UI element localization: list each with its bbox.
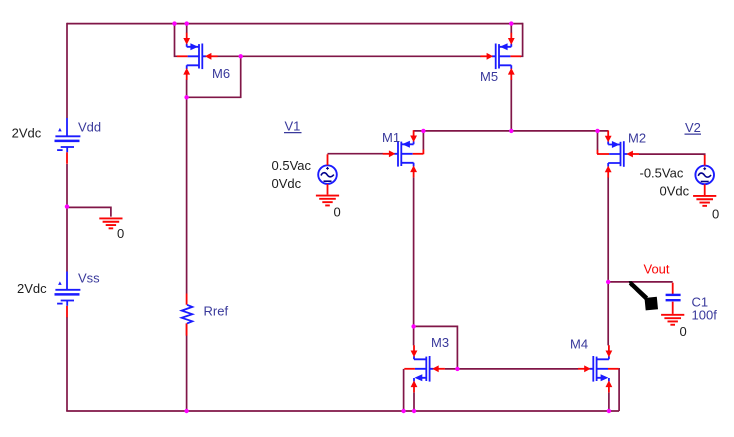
svg-text:Vdd: Vdd [78, 119, 101, 134]
transistor M4 [578, 345, 619, 392]
svg-text:Vss: Vss [78, 271, 100, 286]
transistor M5 [480, 33, 521, 80]
junction top rail / M6 bulk [172, 21, 176, 25]
pin M2 bulk connector [597, 150, 599, 154]
battery Vss [55, 272, 81, 318]
svg-text:Vout: Vout [644, 262, 670, 277]
wire M5 drain from top rail dot [510, 24, 512, 34]
ground 0 below V1 [316, 196, 339, 206]
wire M3 gate to M4 gate [445, 368, 578, 370]
wire Vout branch to C1 [608, 281, 673, 283]
transistor M6 [177, 33, 218, 80]
wire M4 bulk down to rail [618, 369, 621, 411]
svg-text:V1: V1 [285, 119, 301, 134]
wire top VDD rail [67, 23, 523, 25]
pin M1 bulk connector [422, 150, 424, 155]
wire M1 source down to M3 drain [413, 177, 415, 345]
transistor M1 [383, 130, 424, 177]
ground 0 at supply midpoint [99, 218, 122, 228]
ground 0 below V2 [693, 196, 716, 206]
svg-text:100f: 100f [692, 308, 718, 323]
AC source V1 [318, 165, 337, 184]
svg-text:0Vdc: 0Vdc [272, 176, 302, 191]
svg-text:M2: M2 [628, 131, 646, 146]
svg-text:M1: M1 [382, 130, 400, 145]
svg-text:0Vdc: 0Vdc [660, 184, 690, 199]
junction M3 gate tie [455, 367, 459, 371]
junction mid rail / M2 bulk [595, 129, 599, 133]
wire Vss battery to bottom rail [66, 317, 68, 411]
transistor M2 [599, 130, 640, 177]
pin V1 top [327, 154, 329, 165]
svg-text:0: 0 [334, 205, 341, 220]
wire M5 source down to mid rail [510, 80, 512, 131]
svg-text:M6: M6 [212, 66, 230, 81]
battery Vdd [55, 118, 81, 164]
svg-text:2Vdc: 2Vdc [12, 125, 42, 140]
svg-text:2Vdc: 2Vdc [17, 281, 47, 296]
wire V1 to M1 gate [328, 153, 384, 155]
svg-text:-0.5Vac: -0.5Vac [640, 166, 684, 181]
wire Vdd battery to mid junction [66, 164, 68, 272]
junction mid rail / M1 drain [421, 129, 425, 133]
junction supply midpoint [65, 204, 69, 208]
junction bottom rail / M4 source [607, 409, 611, 413]
junction mid rail / M5 source [509, 129, 513, 133]
wire M2 gate to V2 [639, 154, 705, 156]
voltage probe marker at Vout [629, 281, 658, 310]
wire top rail right drop to M5 bulk [520, 23, 523, 57]
wire M2 bulk from mid rail dot [597, 131, 599, 150]
svg-text:0: 0 [117, 226, 124, 241]
svg-text:V2: V2 [685, 120, 701, 135]
pin V2 bottom / ground lead [704, 184, 706, 195]
junction M6 source / Rref [184, 95, 188, 99]
AC source V2 [695, 166, 714, 185]
junction M1 source / M3 drain tie [411, 324, 415, 328]
svg-text:0: 0 [680, 324, 687, 339]
wire ground branch at node 0 [67, 207, 111, 216]
wire M6 bulk from top rail [175, 24, 178, 57]
wire bottom VSS rail [66, 410, 619, 412]
junction bottom rail / M3 source [412, 409, 416, 413]
junction Vout node [606, 280, 610, 284]
junction bottom rail / M3 bulk [401, 409, 405, 413]
pin V1 bottom / ground lead [327, 184, 329, 195]
wire M3 bulk down to rail [403, 369, 405, 411]
junction M6 gate loop [239, 54, 243, 58]
svg-text:M3: M3 [431, 335, 449, 350]
wire left rail upper (VDD to Vdd battery) [66, 23, 68, 118]
svg-text:Rref: Rref [204, 304, 229, 319]
junction top rail / M6 drain [185, 21, 189, 25]
wire M6 source down to Rref [186, 80, 188, 294]
junction top rail / M5 drain [509, 21, 513, 25]
svg-text:0.5Vac: 0.5Vac [272, 158, 312, 173]
svg-text:M4: M4 [570, 337, 588, 352]
wire Rref bottom to rail [186, 323, 188, 411]
capacitor C1 [666, 283, 681, 314]
wire M3 source down to rail [413, 393, 415, 412]
wire M3 drain-gate tie [414, 326, 458, 369]
wire M6 gate-drain loop [188, 56, 241, 97]
wire M1 bulk up to drain node [422, 131, 424, 150]
wire M2 source down through Vout to M4 drain [607, 177, 609, 345]
svg-text:0: 0 [712, 207, 719, 222]
ground 0 below C1 [661, 315, 684, 325]
transistor M3 [404, 345, 445, 392]
wire mid rail M1-M5-M2 [414, 130, 609, 132]
resistor Rref [182, 294, 193, 336]
wire M4 source down to rail [608, 393, 610, 412]
pin V2 top [704, 155, 706, 166]
junction bottom rail / Rref [184, 409, 188, 413]
wire M6 gate to M5 gate [217, 55, 481, 57]
wire M6 drain from top rail [186, 24, 188, 34]
svg-text:M5: M5 [480, 69, 498, 84]
